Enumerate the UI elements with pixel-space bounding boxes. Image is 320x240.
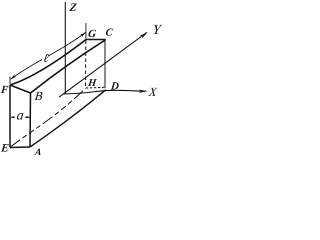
edge F-E (near face left, vertical) <box>9 85 11 148</box>
edge B-A (near face right, vertical) <box>29 93 32 147</box>
white knockout behind label l <box>42 56 49 62</box>
edge A-D (long bottom) <box>30 90 106 147</box>
dimension l: arrowhead at F end <box>11 74 17 79</box>
svg-text:Z: Z <box>68 2 77 14</box>
dimension l: extension line above F <box>9 77 11 85</box>
dimension l: arrowhead at G end <box>80 32 86 37</box>
edge G-C (far face top) <box>86 39 106 41</box>
dimension l: dimension line <box>11 32 86 79</box>
svg-text:D: D <box>109 80 119 92</box>
hidden edge G-H (dashed vertical) <box>85 41 87 88</box>
dimension a: arrow pointing left <box>11 116 15 119</box>
dimension l: extension line above G <box>85 23 87 39</box>
dimension a: arrow pointing right <box>26 116 30 119</box>
arrowhead X <box>139 90 148 93</box>
edge C-D (far face right, vertical) <box>104 40 106 89</box>
svg-text:A: A <box>33 147 42 155</box>
edge E-A (near face bottom) <box>10 146 30 149</box>
axis Z <box>64 2 66 94</box>
edge B-C (long top-right) <box>31 40 106 93</box>
edge F-G (long top-left) <box>10 40 86 86</box>
hidden edge H-D (dashed horizontal) <box>86 86 104 89</box>
svg-text:G: G <box>87 28 96 40</box>
arrowhead Y <box>140 32 148 38</box>
axis Y <box>59 32 147 97</box>
edge F-B (near face top) <box>10 85 31 93</box>
hidden edge E-H (dashed long diagonal) <box>10 88 85 147</box>
axis X <box>63 90 147 94</box>
